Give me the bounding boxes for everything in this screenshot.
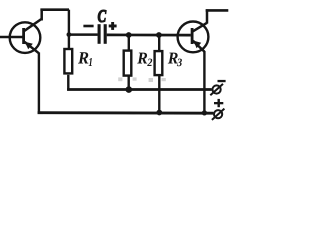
label R1 [78,52,92,66]
node junction R3 bottom rail [156,110,162,116]
scan smudge left of R2 lead [118,77,122,81]
transistor T1 collector diagonal [24,19,41,31]
label minus sign [218,80,226,82]
node junction R3 top [156,32,162,38]
transistor T1 emitter arrow (PNP) [25,42,33,50]
transistor T2 emitter vertical wire [203,51,205,114]
transistor T1 emitter diagonal [25,42,39,53]
label R2 [137,53,152,66]
wire C left lead [69,33,98,36]
scan smudge right of R3 lead [162,78,166,81]
node junction T2 emitter to rail [202,110,207,115]
transistor T2 emitter arrow (PNP) [193,41,201,49]
resistor R3 bottom lead [158,75,160,113]
resistor R2 top lead [128,35,130,51]
transistor T2 circle [178,22,209,53]
resistor R1 bottom lead [67,75,69,91]
terminal plus slash [212,109,225,120]
resistor R2 body [124,51,132,76]
node junction R2 bottom [126,86,133,93]
wire negative supply line [67,88,212,91]
transistor T1 base bar [22,28,25,44]
scan smudge right of R2 lead [133,77,137,80]
wire C right lead / T2 base wire [107,34,191,37]
transistor T2 collector diagonal [193,23,207,32]
wire bottom positive rail [38,111,214,114]
transistor T1 emitter vertical wire [38,53,40,114]
node junction at R1 top / C left [67,32,72,37]
wire top-right horizontal [206,9,229,12]
label C [98,10,106,22]
transistor T1 base wire [0,36,23,39]
label R3 [168,53,182,67]
terminal plus jack [214,110,222,118]
scan smudge left of R3 lead [149,78,153,82]
resistor R3 body [155,51,163,75]
wire top-left horizontal [40,8,69,11]
resistor R3 top lead [158,35,160,51]
label plus sign [214,99,223,107]
wire vertical to R1 / C node [68,10,70,50]
capacitor C right plate [104,24,107,44]
label minus sign at capacitor [83,25,93,28]
transistor T2 collector vertical wire [206,9,209,23]
node junction R2 top [126,32,132,38]
transistor T1 circle [10,22,41,53]
resistor R2 bottom lead [127,76,129,90]
terminal minus slash [210,84,223,95]
transistor T2 emitter diagonal [193,41,204,52]
capacitor C left plate [98,24,101,44]
transistor T2 base bar [191,28,194,44]
transistor T1 collector vertical wire [40,9,43,21]
resistor R1 body [64,49,72,73]
terminal minus jack [213,85,221,93]
label plus sign at capacitor [109,22,117,30]
